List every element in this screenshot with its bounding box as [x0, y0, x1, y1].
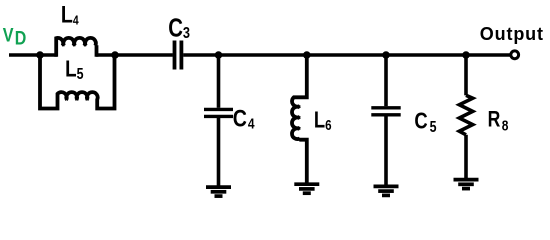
svg-text:L6: L6 [314, 108, 332, 134]
inductor L4 [56, 38, 96, 57]
inductor L5 (bottom loop) [40, 55, 115, 109]
svg-text:C4: C4 [233, 104, 255, 132]
capacitor C3 plates [173, 41, 177, 70]
svg-text:VD: VD [3, 24, 27, 49]
capacitor C4 branch wires [217, 55, 221, 108]
label L6 [314, 108, 332, 134]
label C5 [414, 108, 436, 135]
main wire C3 to output [183, 53, 510, 57]
label VD [3, 24, 27, 49]
output terminal circle [511, 51, 519, 59]
svg-text:L4: L4 [61, 0, 79, 28]
ground (R8) [454, 180, 479, 189]
label L4 [61, 0, 79, 28]
label L5 [65, 56, 84, 83]
ground (C4) [206, 187, 231, 196]
svg-text:R8: R8 [488, 108, 509, 134]
wire input segment [9, 53, 57, 57]
node R8 junction [462, 51, 470, 59]
svg-text:L5: L5 [65, 56, 84, 83]
resistor R8 branch wires [464, 55, 468, 95]
node C4 junction [215, 51, 223, 59]
node A junction [36, 51, 44, 59]
svg-text:Output: Output [480, 24, 544, 44]
resistor R8 zigzag [459, 95, 472, 135]
capacitor C4 plates [204, 108, 233, 111]
svg-text:C5: C5 [414, 108, 436, 135]
capacitor C5 branch wires [384, 55, 388, 106]
inductor L6 branch [292, 55, 307, 184]
svg-text:C3: C3 [168, 13, 190, 43]
ground (C5) [374, 186, 399, 195]
node C5 junction [382, 51, 390, 59]
wire to C3 [96, 53, 173, 57]
capacitor C5 plates [371, 106, 400, 109]
label C3 [168, 13, 190, 43]
label R8 [488, 108, 509, 134]
label C4 [233, 104, 255, 132]
node L6 junction [303, 51, 311, 59]
ground (L6) [294, 184, 319, 193]
node B junction [111, 51, 119, 59]
